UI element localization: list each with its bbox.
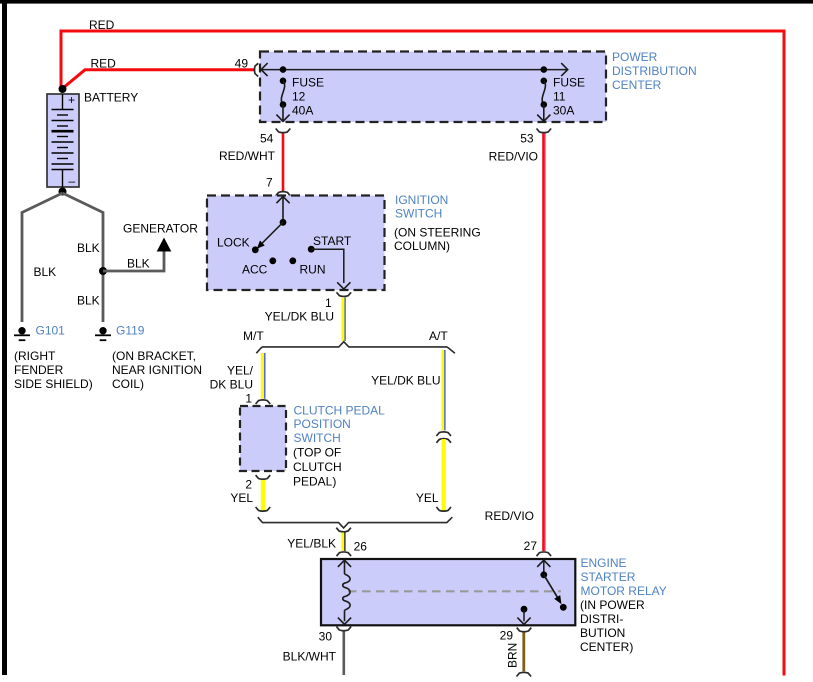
svg-text:CENTER): CENTER)	[580, 640, 633, 654]
label FUSE 12 40A	[292, 76, 324, 118]
svg-text:GENERATOR: GENERATOR	[123, 222, 198, 236]
svg-text:(TOP OF: (TOP OF	[293, 446, 341, 460]
pin 29 connector	[517, 628, 532, 632]
ignition wiper arm to LOCK	[257, 222, 283, 248]
relay internal dashed line	[348, 590, 561, 592]
fuse 12 40A	[276, 66, 289, 121]
svg-text:(ON STEERING: (ON STEERING	[394, 226, 481, 240]
svg-text:7: 7	[266, 175, 273, 189]
svg-text:MOTOR RELAY: MOTOR RELAY	[581, 584, 667, 598]
svg-text:POSITION: POSITION	[294, 417, 351, 431]
svg-text:ACC: ACC	[242, 263, 268, 277]
node LOCK contact	[252, 246, 259, 253]
label A/T	[429, 329, 448, 343]
node START contact	[308, 246, 315, 253]
label POWER DISTRIBUTION CENTER	[612, 50, 697, 92]
power distribution center box	[260, 52, 606, 123]
svg-text:BLK: BLK	[34, 265, 57, 279]
svg-text:CLUTCH: CLUTCH	[293, 460, 342, 474]
svg-text:CLUTCH PEDAL: CLUTCH PEDAL	[294, 404, 386, 418]
label YEL left	[230, 491, 253, 505]
wire BLK/WHT from pin 30	[342, 632, 345, 676]
svg-text:RED: RED	[89, 18, 115, 32]
svg-text:1: 1	[245, 391, 252, 405]
label YEL/DK BLU main	[265, 310, 334, 324]
node RUN contact	[289, 257, 296, 264]
relay output contact to pin 29	[517, 606, 530, 625]
svg-text:26: 26	[354, 540, 368, 554]
ignition switch box	[207, 196, 385, 291]
connector top of YEL/BLK wire	[336, 528, 351, 532]
wire BLK battery to G101	[22, 193, 63, 322]
wire START to pin 1	[311, 249, 350, 289]
ground G101	[14, 327, 30, 340]
svg-text:G101: G101	[36, 324, 66, 338]
wire BLK battery to G119	[63, 193, 104, 322]
svg-text:(ON BRACKET,: (ON BRACKET,	[112, 349, 196, 363]
wire BRN from pin 29	[522, 633, 525, 672]
svg-text:COLUMN): COLUMN)	[394, 239, 450, 253]
pin 30 label	[319, 630, 333, 644]
page border frame left bar	[2, 0, 7, 675]
page border frame top bar	[0, 0, 813, 4]
svg-text:(IN POWER: (IN POWER	[580, 598, 645, 612]
svg-text:RED: RED	[91, 57, 117, 71]
pin 54 label	[260, 131, 274, 145]
clutch pedal position switch box	[240, 406, 286, 471]
clutch pin 2 connector	[256, 475, 271, 479]
svg-text:NEAR IGNITION: NEAR IGNITION	[112, 363, 202, 377]
wire PDC internal bus	[261, 69, 567, 71]
pin 53 connector	[537, 129, 552, 133]
engine starter motor relay box	[321, 559, 575, 625]
svg-text:12: 12	[292, 90, 306, 104]
label RUN	[300, 263, 326, 277]
svg-text:YEL: YEL	[230, 491, 253, 505]
node battery negative terminal	[59, 188, 67, 196]
pin 26 connector	[337, 552, 352, 556]
label GENERATOR	[123, 222, 198, 236]
svg-text:YEL: YEL	[416, 491, 439, 505]
wire RED/WHT pin54 to ignition	[282, 134, 285, 192]
svg-text:DK BLU: DK BLU	[210, 378, 253, 392]
arrow to generator	[157, 238, 172, 252]
svg-text:FUSE: FUSE	[292, 76, 324, 90]
label BATTERY	[84, 91, 138, 105]
label YEL right	[416, 491, 439, 505]
svg-text:29: 29	[500, 628, 514, 642]
label BRN rotated	[506, 643, 520, 668]
svg-text:2: 2	[245, 478, 252, 492]
label G119	[116, 324, 145, 338]
relay switch contact	[537, 560, 566, 610]
connector end M/T branch	[256, 507, 271, 511]
svg-text:RED/WHT: RED/WHT	[219, 149, 276, 163]
svg-text:LOCK: LOCK	[217, 236, 250, 250]
wire YEL A/T branch lower	[442, 439, 446, 511]
svg-text:30: 30	[319, 630, 333, 644]
svg-text:BLK: BLK	[77, 294, 100, 308]
svg-text:POWER: POWER	[612, 50, 658, 64]
pin 26 label	[354, 540, 368, 554]
svg-text:YEL/: YEL/	[227, 364, 254, 378]
svg-text:BUTION: BUTION	[580, 626, 625, 640]
svg-text:FUSE: FUSE	[553, 76, 585, 90]
svg-text:YEL/BLK: YEL/BLK	[287, 537, 336, 551]
pin 29 label	[500, 628, 514, 642]
pin 1 label ignition	[325, 296, 332, 310]
svg-text:30A: 30A	[553, 104, 574, 118]
label G101	[36, 324, 66, 338]
svg-text:G119: G119	[116, 324, 145, 338]
pin 49 label	[235, 57, 249, 71]
wire YEL clutch to merge brace	[261, 480, 265, 511]
svg-text:DISTRI-: DISTRI-	[580, 612, 623, 626]
svg-text:SWITCH: SWITCH	[395, 207, 442, 221]
wire YEL/BLK to relay pin 26	[343, 533, 345, 552]
label START	[313, 234, 352, 248]
label RED second	[91, 57, 117, 71]
wire YEL/DK BLU A/T branch upper	[443, 350, 445, 431]
label IGNITION SWITCH	[394, 193, 481, 253]
fuse 11 30A	[537, 66, 550, 121]
pin 30 connector	[337, 627, 352, 631]
pin 27 connector	[537, 552, 552, 556]
svg-text:1: 1	[325, 296, 332, 310]
svg-text:40A: 40A	[292, 104, 313, 118]
node junction to generator	[99, 267, 107, 275]
svg-text:BLK/WHT: BLK/WHT	[283, 650, 337, 664]
wire YEL/DK BLU ignition pin1 to splice brace	[343, 297, 345, 341]
label RED top	[89, 18, 115, 32]
label BLK generator branch	[127, 257, 150, 271]
svg-text:–: –	[69, 174, 76, 188]
svg-text:SIDE SHIELD): SIDE SHIELD)	[14, 377, 93, 391]
pin 7 connector	[276, 192, 291, 196]
label M/T	[243, 329, 264, 343]
label YEL/ DK BLU M/T	[210, 364, 254, 392]
svg-text:YEL/DK BLU: YEL/DK BLU	[371, 373, 440, 387]
pin 7 label	[266, 175, 273, 189]
label ACC	[242, 263, 268, 277]
svg-text:ENGINE: ENGINE	[581, 556, 627, 570]
label YEL/DK BLU A/T	[371, 373, 440, 387]
pin 27 label	[524, 539, 538, 553]
svg-text:(RIGHT: (RIGHT	[14, 349, 56, 363]
pin 53 label	[520, 131, 534, 145]
brace split M/T A/T	[256, 342, 455, 354]
relay coil	[338, 560, 351, 624]
svg-text:START: START	[313, 234, 352, 248]
arrow bus right	[561, 63, 568, 76]
svg-text:RUN: RUN	[300, 263, 326, 277]
svg-text:SWITCH: SWITCH	[294, 431, 341, 445]
label RED/WHT	[219, 149, 276, 163]
node ACC contact	[269, 257, 276, 264]
svg-text:54: 54	[260, 131, 274, 145]
label LOCK	[217, 236, 250, 250]
svg-text:BLK: BLK	[77, 241, 100, 255]
pin 54 connector	[276, 129, 291, 133]
label BLK right upper	[77, 241, 100, 255]
svg-text:COIL): COIL)	[112, 377, 144, 391]
label BLK/WHT	[283, 650, 337, 664]
svg-text:CENTER: CENTER	[612, 78, 662, 92]
wire BLK junction to generator	[103, 250, 164, 271]
svg-text:27: 27	[524, 539, 538, 553]
battery B1	[47, 93, 79, 188]
label RED/VIO lower	[485, 509, 534, 523]
label BLK right lower	[77, 294, 100, 308]
clutch pin 1 connector	[256, 400, 271, 404]
label CLUTCH PEDAL POSITION SWITCH	[293, 404, 385, 489]
label YEL/BLK	[287, 537, 336, 551]
wire YEL/DK BLU M/T branch	[262, 353, 264, 399]
pin 49 connector	[255, 63, 259, 76]
ignition pin 7 arrow	[276, 197, 289, 223]
svg-text:FENDER: FENDER	[14, 363, 64, 377]
clutch pin 2 label	[245, 478, 252, 492]
svg-text:53: 53	[520, 131, 534, 145]
svg-text:BATTERY: BATTERY	[84, 91, 138, 105]
label G119 location	[112, 349, 202, 391]
svg-text:RED/VIO: RED/VIO	[489, 150, 538, 164]
label BLK left	[34, 265, 57, 279]
svg-text:A/T: A/T	[429, 329, 448, 343]
arrow bus left	[261, 63, 268, 76]
svg-text:RED/VIO: RED/VIO	[485, 509, 534, 523]
svg-text:+: +	[68, 93, 75, 107]
label FUSE 11 30A	[553, 76, 585, 118]
wire RED/VIO pin53 to relay pin27	[543, 134, 545, 552]
clutch pin 1 label	[245, 391, 252, 405]
wire RED battery to PDC pin 49	[63, 70, 254, 88]
pin 1 connector ignition	[337, 292, 352, 296]
svg-text:YEL/DK BLU: YEL/DK BLU	[265, 310, 334, 324]
svg-text:PEDAL): PEDAL)	[293, 475, 336, 489]
label ENGINE STARTER MOTOR RELAY	[580, 556, 667, 654]
inline connector A/T	[436, 432, 451, 443]
svg-text:STARTER: STARTER	[581, 570, 636, 584]
connector end BRN wire	[517, 672, 532, 676]
label RED/VIO upper	[489, 150, 538, 164]
node ignition common	[280, 219, 287, 226]
label G101 location	[14, 349, 93, 391]
svg-text:11: 11	[553, 90, 566, 104]
node battery positive terminal	[59, 85, 67, 93]
ground G119	[95, 327, 111, 340]
svg-text:M/T: M/T	[243, 329, 264, 343]
connector end A/T branch	[436, 507, 451, 511]
svg-text:BRN: BRN	[506, 643, 520, 668]
svg-text:49: 49	[235, 57, 249, 71]
svg-text:IGNITION: IGNITION	[395, 193, 448, 207]
svg-text:BLK: BLK	[127, 257, 150, 271]
brace merge to relay	[258, 517, 453, 528]
svg-text:DISTRIBUTION: DISTRIBUTION	[612, 64, 697, 78]
